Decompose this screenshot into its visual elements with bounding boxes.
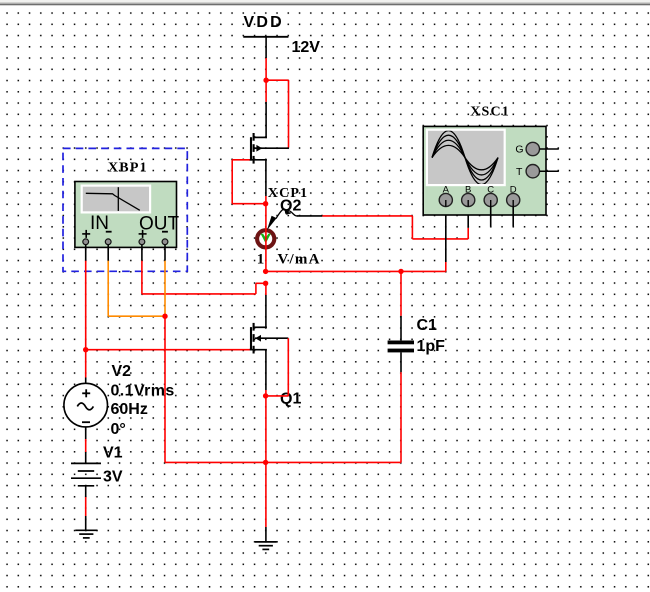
wire XBP1 IN+ to input node xyxy=(85,245,87,350)
svg-text:V1: V1 xyxy=(103,445,123,462)
wire V2 minus to V1 plus xyxy=(85,427,87,464)
ground center xyxy=(255,542,277,550)
node ground net junction xyxy=(162,314,167,319)
selection box around XBP1 xyxy=(63,148,187,271)
wire V1 minus to ground xyxy=(85,486,87,530)
transistor Q2 xyxy=(249,133,301,215)
svg-text:C1: C1 xyxy=(417,317,438,334)
svg-text:XSC1: XSC1 xyxy=(470,104,510,119)
wire XBP1 IN- to ground net xyxy=(108,245,165,317)
wire scope C stub xyxy=(490,207,492,227)
wire XCP1 output to scope B xyxy=(297,207,468,239)
svg-text:IN: IN xyxy=(90,213,109,234)
svg-text:Q1: Q1 xyxy=(280,391,301,408)
svg-text:VDD: VDD xyxy=(244,14,284,31)
node feedback step junction xyxy=(263,281,268,286)
bode plotter XBP1 xyxy=(75,161,180,248)
svg-text:0°: 0° xyxy=(111,421,126,438)
svg-text:V/mA: V/mA xyxy=(278,251,321,267)
wire output node to bode OUT+ xyxy=(142,283,266,294)
wire VDD to Q2 drain xyxy=(265,37,267,138)
wire V2 plus lead xyxy=(85,350,87,384)
node Q1 source junction xyxy=(263,393,268,398)
wire probe net vertical xyxy=(265,196,267,271)
transistor Q1 xyxy=(249,323,301,408)
svg-text:12V: 12V xyxy=(292,39,321,56)
node input junction xyxy=(83,347,88,352)
ground left xyxy=(75,530,97,538)
source V2 xyxy=(64,363,175,438)
wire XBP1 OUT- to ground net xyxy=(164,245,166,317)
svg-text:T: T xyxy=(516,166,523,178)
node Q2 source junction xyxy=(263,201,268,206)
wire Q2 drain to Q2 body feedback xyxy=(261,80,289,148)
wire bottom junction to ground xyxy=(265,462,267,541)
power VDD xyxy=(243,14,320,56)
wire Q1 source to bottom net xyxy=(265,396,267,463)
node drain-gate junction xyxy=(263,78,268,83)
oscilloscope XSC1 xyxy=(423,104,559,215)
svg-text:XCP1: XCP1 xyxy=(268,186,309,201)
wire output node to C1 top xyxy=(266,270,401,272)
svg-text:XBP1: XBP1 xyxy=(108,161,148,176)
node C1 top junction xyxy=(398,269,403,274)
svg-text:3V: 3V xyxy=(103,469,123,486)
svg-text:60Hz: 60Hz xyxy=(111,401,148,418)
svg-text:1: 1 xyxy=(257,251,266,267)
wire output node down to Q1 drain xyxy=(265,283,267,328)
wire input node to Q1 gate xyxy=(86,349,250,351)
svg-text:V2: V2 xyxy=(112,363,132,380)
wire C1 junction to scope A xyxy=(401,207,446,272)
node bottom junction xyxy=(263,460,268,465)
svg-text:OUT: OUT xyxy=(139,213,180,234)
wire ground net vertical left xyxy=(164,316,166,462)
svg-text:1pF: 1pF xyxy=(417,338,446,355)
current probe XCP1 xyxy=(257,186,321,267)
wire Q2 gate to source tie xyxy=(232,160,266,204)
wire C1 bottom to bottom net xyxy=(400,372,402,462)
node output junction xyxy=(263,269,268,274)
wire XBP1 OUT+ to output net xyxy=(141,245,143,294)
battery V1 xyxy=(71,445,123,486)
wire bottom net horizontal xyxy=(165,461,401,463)
wire scope D stub xyxy=(512,207,514,227)
svg-text:G: G xyxy=(515,144,523,156)
capacitor C1 xyxy=(388,271,446,372)
wire Q1 body to source tie xyxy=(266,338,288,396)
